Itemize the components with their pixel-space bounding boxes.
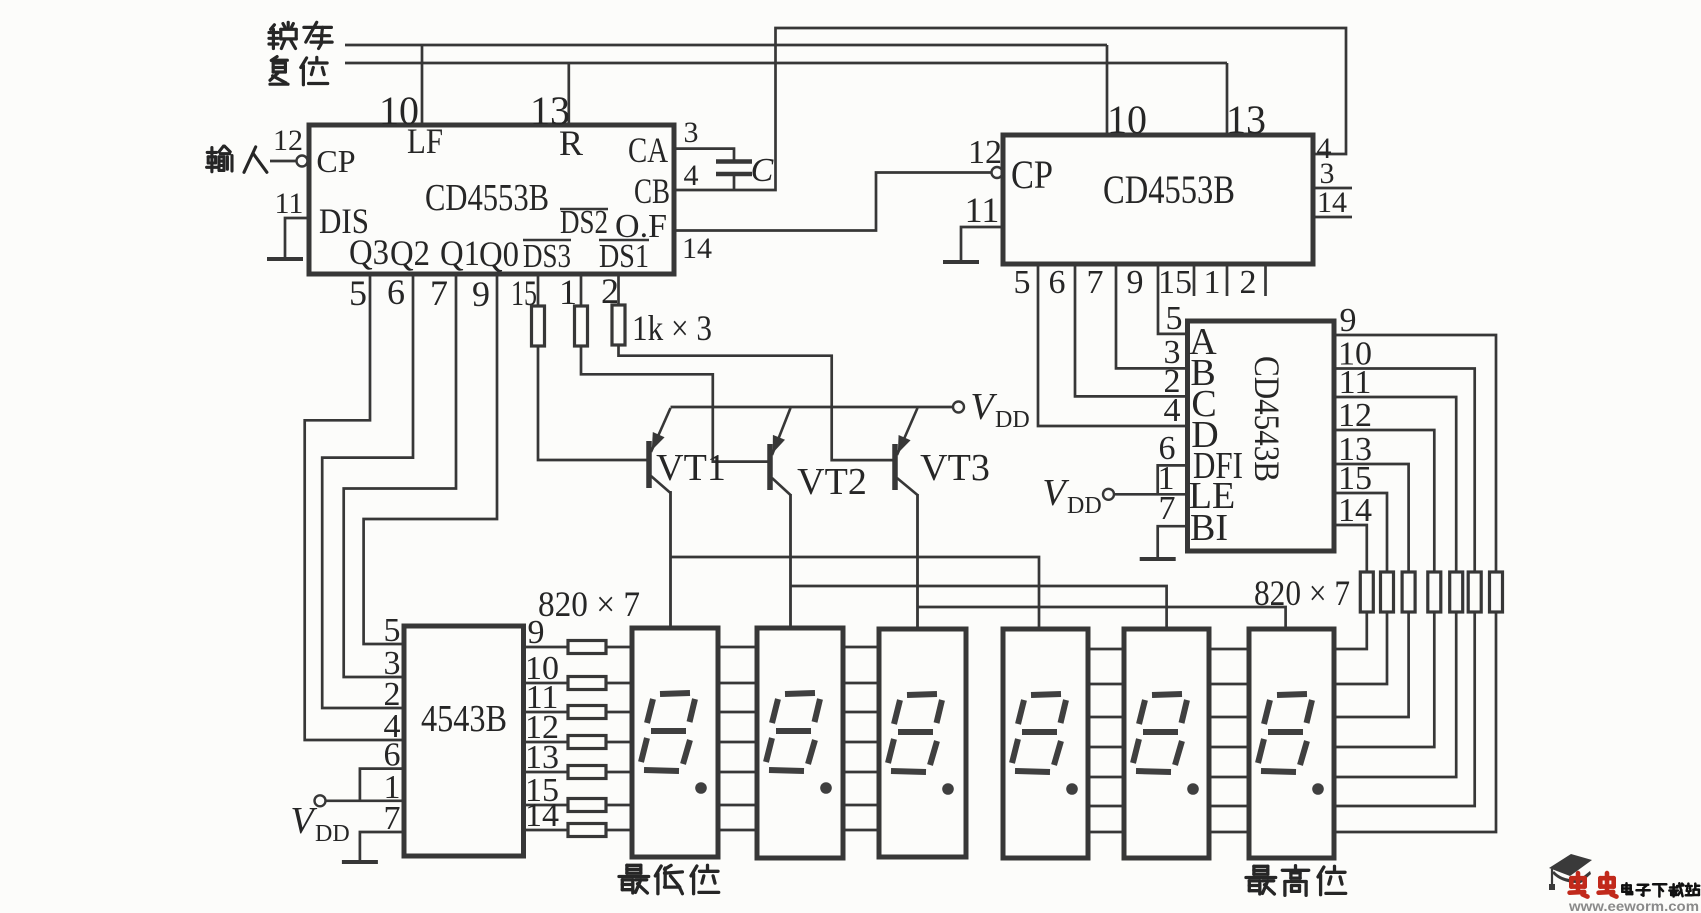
resistor R1 1k bbox=[532, 306, 545, 346]
svg-text:DD: DD bbox=[315, 821, 350, 847]
wire U3 output b pin10 bbox=[1334, 369, 1475, 574]
IC U1 CD4553B body bbox=[309, 125, 674, 274]
svg-text:CB: CB bbox=[634, 171, 670, 211]
resistor R11 820ohm horizontal bbox=[568, 641, 606, 654]
wire U2 pin5 to U3 D bbox=[1038, 264, 1188, 426]
wire U1 Q1 pin7 down bbox=[344, 274, 456, 677]
wire segment bus DS5-DS6 bbox=[1209, 805, 1249, 808]
node U2 CP input circle bbox=[992, 167, 1003, 178]
wire reset to U1 pin13 bbox=[567, 63, 570, 125]
display DS2 body bbox=[757, 628, 843, 858]
U2 pin15 stub bbox=[1193, 264, 1196, 296]
svg-text:7: 7 bbox=[430, 273, 448, 313]
wire U4 BI to ground bbox=[360, 832, 404, 862]
wire segment bus DS2-DS3 bbox=[843, 804, 879, 807]
svg-text:5: 5 bbox=[1166, 300, 1183, 337]
svg-text:14: 14 bbox=[1317, 186, 1347, 219]
label 复位 (reset) bbox=[271, 57, 277, 61]
resistor R15 820ohm horizontal bbox=[568, 766, 606, 779]
svg-text:11: 11 bbox=[1339, 364, 1372, 401]
wire U4 output 13 to resistor bbox=[524, 771, 569, 774]
wire DS3 common pin from VT3 collector bbox=[916, 494, 919, 629]
resistor R22 820ohm vertical bbox=[1381, 572, 1394, 612]
wire U4 output 11 to resistor bbox=[524, 711, 569, 714]
wire segment bus DS1-DS2 bbox=[718, 741, 757, 744]
wire VT2 collector rail to DS5 bbox=[791, 586, 1167, 628]
wire R2 to VT2 base bbox=[581, 346, 769, 462]
svg-text:13: 13 bbox=[530, 88, 570, 133]
ground at U2 DIS bbox=[943, 260, 979, 264]
svg-text:VT3: VT3 bbox=[920, 447, 990, 489]
wire segment bus DS2-DS3 bbox=[843, 741, 879, 744]
wire U3 output a pin9 bbox=[1334, 335, 1496, 573]
wire DS1 common pin from VT1 collector bbox=[669, 491, 672, 628]
display DS3 body bbox=[879, 629, 966, 857]
display DS1 lowest digit body bbox=[632, 628, 718, 857]
wire U4 output 15 to resistor bbox=[524, 804, 569, 807]
wire resistor R25 to DS6 segment bbox=[1334, 612, 1456, 777]
svg-text:4: 4 bbox=[1164, 392, 1181, 429]
svg-text:VT2: VT2 bbox=[797, 461, 867, 503]
svg-text:CP: CP bbox=[1011, 152, 1053, 197]
svg-text:Q2: Q2 bbox=[390, 233, 430, 273]
wire U1 Q3 pin5 down bbox=[305, 274, 404, 740]
wire U1 DS3 pin15 to R1 bbox=[537, 274, 540, 306]
svg-text:V: V bbox=[1042, 472, 1069, 514]
svg-text:VT1: VT1 bbox=[656, 447, 726, 489]
svg-text:V: V bbox=[970, 386, 997, 428]
wire segment bus DS4-DS5 bbox=[1088, 746, 1124, 749]
watermark 虫虫 red characters bbox=[1571, 876, 1584, 881]
wire segment bus DS4-DS5 bbox=[1088, 776, 1124, 779]
wire resistor R27 to DS6 segment bbox=[1334, 612, 1496, 832]
svg-text:DD: DD bbox=[995, 407, 1030, 433]
wire segment bus DS5-DS6 bbox=[1209, 831, 1249, 834]
wire U3 output f pin15 bbox=[1334, 493, 1387, 573]
svg-text:Q0: Q0 bbox=[479, 234, 519, 274]
svg-text:1: 1 bbox=[1204, 264, 1221, 301]
label 锁存 (latch) bbox=[271, 25, 275, 30]
wire segment bus DS5-DS6 bbox=[1209, 746, 1249, 749]
wire resistor R16 to DS1 bbox=[606, 804, 632, 807]
wire segment bus DS1-DS2 bbox=[718, 771, 757, 774]
wire resistor R13 to DS1 bbox=[606, 711, 632, 714]
wire segment bus DS1-DS2 bbox=[718, 804, 757, 807]
display DS6 highest digit seven-segment digit bbox=[1277, 694, 1307, 695]
resistor R2 1k bbox=[575, 306, 588, 346]
display DS2 seven-segment digit bbox=[785, 693, 815, 694]
svg-text:13: 13 bbox=[1226, 97, 1266, 142]
wire segment bus DS5-DS6 bbox=[1209, 683, 1249, 686]
wire segment bus DS2-DS3 bbox=[843, 646, 879, 649]
U2 pin stub 14 bbox=[1313, 216, 1352, 219]
svg-text:Q3: Q3 bbox=[349, 232, 389, 272]
wire resistor R11 to DS1 bbox=[606, 646, 632, 649]
svg-text:820 × 7: 820 × 7 bbox=[538, 584, 640, 624]
resistor R12 820ohm horizontal bbox=[568, 677, 606, 690]
node input circle at U1 CP pin12 bbox=[297, 156, 308, 167]
svg-text:12: 12 bbox=[273, 124, 303, 157]
resistor R17 820ohm horizontal bbox=[568, 824, 606, 837]
wire VT3 collector rail to DS6 bbox=[918, 607, 1286, 628]
svg-text:CD4543B: CD4543B bbox=[1247, 356, 1287, 482]
wire U3 output g pin14 bbox=[1334, 525, 1367, 573]
node VDD rail circle bbox=[953, 402, 964, 413]
display DS6 highest digit body bbox=[1249, 629, 1334, 858]
wire U4 output 9 to resistor bbox=[524, 646, 569, 649]
wire net-latch horizontal bbox=[345, 44, 1107, 47]
resistor R16 820ohm horizontal bbox=[568, 799, 606, 812]
svg-text:DS1: DS1 bbox=[599, 238, 649, 275]
svg-text:7: 7 bbox=[1087, 264, 1104, 301]
wire segment bus DS2-DS3 bbox=[843, 711, 879, 714]
svg-text:4: 4 bbox=[684, 159, 699, 192]
wire U2 pin9 to U3 A bbox=[1158, 264, 1188, 334]
svg-text:6: 6 bbox=[1049, 264, 1066, 301]
svg-text:3: 3 bbox=[684, 116, 699, 149]
wire segment bus DS4-DS5 bbox=[1088, 683, 1124, 686]
wire segment bus DS4-DS5 bbox=[1088, 716, 1124, 719]
svg-text:12: 12 bbox=[968, 134, 1002, 171]
wire U4 output 10 to resistor bbox=[524, 682, 569, 685]
svg-text:14: 14 bbox=[682, 232, 712, 265]
svg-text:14: 14 bbox=[1338, 492, 1372, 529]
wire latch to U1 pin10 bbox=[421, 45, 424, 125]
wire resistor R23 to DS6 segment bbox=[1334, 612, 1409, 717]
ground at U1 DIS bbox=[267, 257, 303, 261]
wire U3 output d pin12 bbox=[1334, 430, 1434, 573]
resistor R23 820ohm vertical bbox=[1402, 572, 1415, 612]
wire VDD to U4 LE bbox=[326, 799, 404, 802]
wire U2 DIS pin11 to ground bbox=[961, 227, 1003, 262]
wire U1 CA pin3 to capacitor bbox=[674, 149, 734, 160]
wire U3 output c pin11 bbox=[1334, 397, 1456, 573]
svg-text:2: 2 bbox=[1240, 264, 1257, 301]
wire U3 output e pin13 bbox=[1334, 464, 1409, 573]
svg-text:V: V bbox=[290, 800, 317, 842]
IC U3 CD4543B body bbox=[1188, 321, 1335, 551]
svg-text:10: 10 bbox=[1107, 97, 1147, 142]
watermark text 电子下载站 bbox=[1625, 883, 1628, 885]
wire resistor R17 to DS1 bbox=[606, 829, 632, 832]
resistor R21 820ohm vertical bbox=[1360, 572, 1373, 612]
display DS5 seven-segment digit bbox=[1152, 694, 1182, 695]
wire segment bus DS1-DS2 bbox=[718, 711, 757, 714]
node VDD circle at U4 LE bbox=[315, 795, 326, 806]
wire R3 to VT3 base bbox=[619, 345, 895, 460]
wire U1 DIS pin11 to ground bbox=[285, 218, 309, 259]
wire U1 Q0 pin9 down bbox=[364, 274, 497, 644]
label 输入 (input) bbox=[207, 151, 216, 154]
label 最高位 (highest digit) bbox=[1254, 865, 1268, 868]
wire U1 Q2 pin6 down bbox=[322, 274, 413, 708]
svg-text:CD4553B: CD4553B bbox=[1103, 167, 1235, 212]
svg-text:CA: CA bbox=[628, 130, 668, 170]
wire segment bus DS1-DS2 bbox=[718, 646, 757, 649]
display DS5 body bbox=[1124, 629, 1209, 858]
resistor R14 820ohm horizontal bbox=[568, 736, 606, 749]
wire U4 output 12 to resistor bbox=[524, 741, 569, 744]
wire VT1 collector rail to DS1 and DS4 bbox=[671, 557, 1040, 628]
wire resistor R21 to DS6 segment bbox=[1334, 612, 1367, 649]
svg-text:9: 9 bbox=[472, 274, 490, 314]
U2 pin stub 3 bbox=[1313, 187, 1352, 190]
resistor R26 820ohm vertical bbox=[1468, 572, 1481, 612]
wire reset to U2 pin13 bbox=[1226, 63, 1229, 135]
IC U2 CD4553B body bbox=[1003, 135, 1313, 264]
wire U4 DFI to LE tie bbox=[360, 769, 404, 801]
watermark graduation cap icon bbox=[1549, 854, 1592, 876]
svg-text:13: 13 bbox=[525, 739, 559, 776]
svg-text:5: 5 bbox=[349, 273, 367, 313]
svg-text:1k × 3: 1k × 3 bbox=[632, 308, 712, 348]
wire U3 DFI to LE tie bbox=[1158, 465, 1188, 494]
transistor VT3 bbox=[892, 444, 898, 490]
wire segment bus DS1-DS2 bbox=[718, 829, 757, 832]
svg-text:9: 9 bbox=[1340, 302, 1357, 339]
resistor R27 820ohm vertical bbox=[1490, 572, 1503, 612]
wire resistor R24 to DS6 segment bbox=[1334, 612, 1434, 747]
svg-text:11: 11 bbox=[965, 190, 1000, 230]
U2 pin2 stub bbox=[1264, 264, 1267, 296]
display DS4 body bbox=[1003, 629, 1088, 858]
wire U3 BI to ground bbox=[1158, 526, 1188, 559]
wire U4 output 14 to resistor bbox=[524, 829, 569, 832]
wire segment bus DS4-DS5 bbox=[1088, 831, 1124, 834]
svg-text:5: 5 bbox=[384, 612, 401, 649]
wire resistor R12 to DS1 bbox=[606, 682, 632, 685]
wire segment bus DS4-DS5 bbox=[1088, 648, 1124, 651]
wire DS2 common pin from VT2 collector bbox=[789, 494, 792, 628]
svg-text:Q1: Q1 bbox=[440, 233, 480, 273]
svg-text:CP: CP bbox=[316, 143, 355, 179]
wire resistor R15 to DS1 bbox=[606, 771, 632, 774]
svg-text:11: 11 bbox=[275, 187, 304, 220]
svg-text:www.eeworm.com: www.eeworm.com bbox=[1568, 898, 1699, 913]
svg-text:6: 6 bbox=[387, 272, 405, 312]
wire latch to U2 pin10 bbox=[1106, 45, 1109, 135]
U2 pin1 stub bbox=[1226, 264, 1229, 296]
wire segment bus DS2-DS3 bbox=[843, 771, 879, 774]
svg-text:BI: BI bbox=[1190, 507, 1228, 549]
transistor VT2 bbox=[767, 444, 773, 490]
wire VDD to U3 LE bbox=[1115, 493, 1188, 496]
wire VDD emitter rail bbox=[671, 406, 953, 409]
node VDD circle at U3 LE bbox=[1103, 489, 1114, 500]
wire segment bus DS1-DS2 bbox=[718, 682, 757, 685]
label 最低位 (lowest digit) bbox=[627, 864, 641, 867]
svg-text:4543B: 4543B bbox=[421, 698, 507, 740]
svg-text:10: 10 bbox=[379, 88, 419, 133]
svg-text:C: C bbox=[751, 152, 774, 189]
svg-text:DD: DD bbox=[1067, 493, 1102, 519]
wire U1 DS2 pin2 to R3 bbox=[617, 274, 620, 305]
IC U4 4543B body bbox=[404, 626, 524, 856]
svg-text:9: 9 bbox=[1127, 264, 1144, 301]
wire segment bus DS2-DS3 bbox=[843, 829, 879, 832]
display DS3 seven-segment digit bbox=[907, 694, 937, 695]
svg-text:CD4553B: CD4553B bbox=[425, 177, 549, 219]
wire U2 pin6 to U3 C bbox=[1075, 264, 1188, 396]
svg-text:5: 5 bbox=[1014, 264, 1031, 301]
svg-text:9: 9 bbox=[528, 614, 545, 651]
wire resistor R26 to DS6 segment bbox=[1334, 612, 1475, 806]
wire U1 O.F pin14 to U2 CP pin12 bbox=[674, 173, 991, 231]
transistor VT1 bbox=[646, 441, 652, 488]
svg-text:12: 12 bbox=[1338, 397, 1372, 434]
wire U1 DS1 pin1 to R2 bbox=[580, 274, 583, 306]
wire segment bus DS4-DS5 bbox=[1088, 805, 1124, 808]
resistor R25 820ohm vertical bbox=[1450, 572, 1463, 612]
wire resistor R14 to DS1 bbox=[606, 741, 632, 744]
resistor R13 820ohm horizontal bbox=[568, 706, 606, 719]
svg-text:15: 15 bbox=[1158, 264, 1192, 301]
wire segment bus DS2-DS3 bbox=[843, 682, 879, 685]
wire R1 to VT1 base bbox=[538, 346, 648, 460]
ground at U3 BI bbox=[1140, 557, 1176, 561]
wire U1 CB pin4 to top rail bbox=[674, 28, 1346, 190]
resistor R24 820ohm vertical bbox=[1428, 572, 1441, 612]
svg-text:14: 14 bbox=[525, 797, 559, 834]
resistor R3 1k bbox=[612, 305, 625, 345]
svg-text:DS3: DS3 bbox=[523, 238, 571, 275]
display DS1 lowest digit seven-segment digit bbox=[660, 693, 690, 694]
wire segment bus DS5-DS6 bbox=[1209, 776, 1249, 779]
wire resistor R22 to DS6 segment bbox=[1334, 612, 1387, 684]
wire segment bus DS5-DS6 bbox=[1209, 716, 1249, 719]
wire segment bus DS5-DS6 bbox=[1209, 648, 1249, 651]
wire net-reset horizontal bbox=[345, 62, 1227, 65]
capacitor C1 plates bbox=[716, 159, 752, 164]
ground at U4 BI bbox=[342, 860, 378, 864]
wire U2 pin7 to U3 B bbox=[1116, 264, 1188, 368]
wire input stub bbox=[270, 160, 296, 163]
display DS4 seven-segment digit bbox=[1031, 694, 1061, 695]
